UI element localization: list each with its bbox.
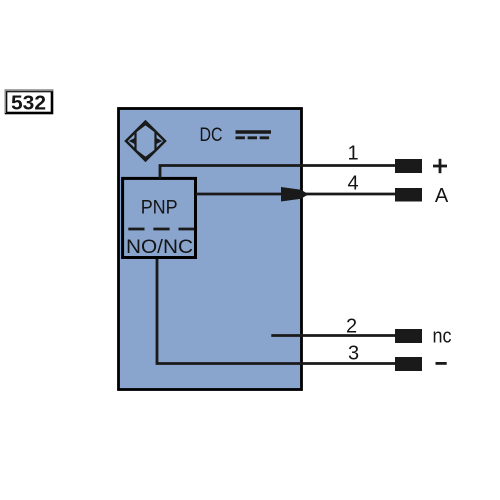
svg-text:A: A — [435, 185, 449, 207]
svg-text:2: 2 — [346, 316, 357, 338]
wire 2 (nc) — [271, 334, 395, 337]
svg-text:532: 532 — [11, 92, 46, 114]
node + — [433, 159, 447, 173]
pin 4 — [395, 188, 422, 202]
sensor body — [119, 109, 302, 390]
pin 2 — [395, 329, 422, 343]
wire 1 (+ supply) — [160, 166, 395, 179]
amplifier block U1 (PNP / NO-NC) — [123, 178, 196, 257]
output arrow — [281, 187, 309, 202]
pin 3 — [395, 357, 422, 371]
svg-text:nc: nc — [433, 326, 452, 348]
svg-text:PNP: PNP — [141, 198, 178, 219]
svg-text:DC: DC — [200, 124, 223, 146]
DC supply symbol — [236, 132, 272, 138]
svg-text:3: 3 — [348, 343, 359, 365]
svg-text:1: 1 — [347, 143, 358, 165]
proximity sensor symbol (diamond) — [126, 122, 165, 161]
pin 1 — [395, 159, 422, 173]
wire 4 (output A) — [196, 193, 395, 196]
svg-text:NO/NC: NO/NC — [126, 237, 193, 258]
node - — [436, 362, 447, 365]
wire 3 (- supply) — [157, 259, 395, 364]
figure label 532 box — [5, 90, 54, 114]
svg-text:4: 4 — [347, 172, 358, 194]
divider dashed line — [128, 228, 194, 231]
